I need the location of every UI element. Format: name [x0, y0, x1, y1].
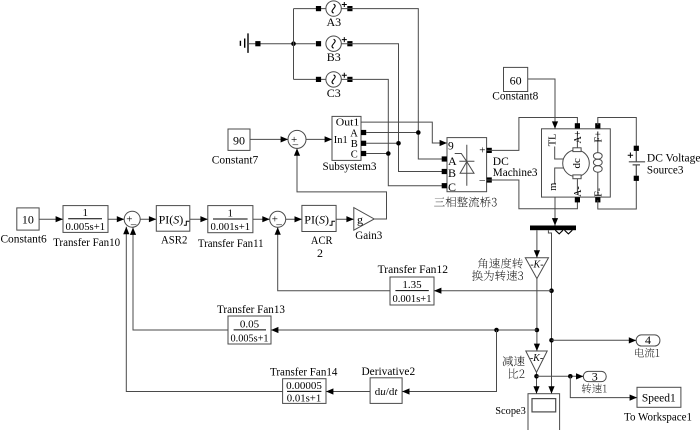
port bridge B: [442, 169, 447, 174]
svg-text:0.001s+1: 0.001s+1: [393, 293, 432, 305]
transfer fcn block Transfer Fan13: [228, 316, 271, 344]
svg-text:0.01s+1: 0.01s+1: [287, 393, 322, 405]
svg-text:F+: F+: [593, 131, 604, 143]
svg-text:To Workspace1: To Workspace1: [624, 410, 692, 424]
svg-text:In1: In1: [334, 135, 348, 146]
node speed1 tap: [568, 374, 573, 379]
svg-text:C3: C3: [327, 86, 341, 100]
node A tap: [416, 130, 421, 135]
svg-text:3: 3: [592, 369, 598, 383]
node current fb tap: [549, 288, 554, 293]
svg-text:0.005s+1: 0.005s+1: [231, 332, 269, 344]
svg-text:90: 90: [233, 134, 245, 148]
svg-text:Scope3: Scope3: [495, 405, 526, 417]
svg-text:–: –: [130, 218, 137, 230]
subsystem block Subsystem3: [332, 116, 361, 160]
svg-text:-K-: -K-: [530, 353, 543, 364]
port A3 left: [316, 6, 321, 11]
wire to C3: [294, 78, 327, 80]
constant block Constant8: [504, 67, 528, 91]
svg-text:A3: A3: [326, 15, 341, 29]
demux bar: [530, 226, 576, 231]
to-workspace block Speed1: [637, 387, 681, 407]
wire Fan13 to sum1: [133, 228, 228, 331]
svg-text:Source3: Source3: [647, 165, 684, 177]
wire F+ to battery +: [598, 118, 637, 148]
gain triangle reducer -K-: [526, 351, 547, 372]
outport block current 4: [636, 335, 660, 346]
thyristor symbol: [455, 145, 475, 186]
svg-text:Transfer Fan14: Transfer Fan14: [270, 364, 337, 378]
svg-text:Constant8: Constant8: [492, 89, 538, 103]
wire Derivative2 to Fan14: [326, 391, 370, 393]
node C tap: [386, 151, 391, 156]
svg-text:Machine3: Machine3: [493, 167, 538, 179]
wire Constant8 to TL: [528, 79, 555, 129]
port B3 left: [316, 41, 321, 46]
wire Subsystem3 C tap: [366, 153, 388, 155]
port bridge A: [442, 156, 447, 161]
svg-text:–: –: [479, 174, 486, 186]
wire Gain3 to sum3: [297, 148, 387, 219]
svg-text:2: 2: [317, 246, 323, 260]
constant block Constant7: [228, 129, 250, 150]
wire Subsystem3 B tap: [366, 142, 399, 144]
wire sum2 to ACR: [286, 218, 302, 220]
port bridge C: [442, 183, 447, 188]
wire F- to battery -: [598, 179, 637, 209]
sum junction S2: [270, 211, 286, 230]
port Subsystem3 B: [361, 141, 366, 146]
wire C3 to bridge C: [341, 79, 447, 185]
wire Fan12 to sum2: [278, 227, 390, 290]
svg-text:A+: A+: [573, 130, 584, 143]
svg-text:TL: TL: [548, 133, 559, 146]
sum junction S3: [288, 130, 306, 150]
wire sum1 to ASR2: [140, 218, 156, 220]
svg-text:Derivative2: Derivative2: [361, 364, 415, 378]
wire to speed port: [537, 375, 584, 377]
AC voltage source C3: [326, 72, 347, 87]
wire B3 to bridge B: [341, 44, 447, 172]
port on ground wire: [255, 41, 260, 46]
wire speed to Fan13: [271, 329, 537, 331]
svg-text:DC Voltage: DC Voltage: [647, 152, 700, 164]
svg-text:1: 1: [83, 207, 89, 219]
port A3 right: [347, 6, 352, 11]
wire to Speed1: [570, 376, 637, 397]
wire ACR to Gain3: [336, 218, 354, 220]
svg-text:4: 4: [645, 333, 651, 347]
svg-text:dc: dc: [571, 158, 583, 169]
port C3 left: [316, 77, 321, 82]
svg-text:Constant7: Constant7: [212, 153, 259, 167]
transfer fcn block Transfer Fan14: [283, 379, 326, 404]
gain triangle speed-convert -K-: [525, 258, 548, 279]
port bridge +: [487, 148, 492, 153]
wire sum to In1: [306, 138, 332, 140]
wire to Derivative2: [402, 330, 496, 392]
label reducer line1: [503, 356, 525, 367]
wire demux to speed gain: [536, 230, 538, 258]
svg-text:-K-: -K-: [530, 260, 543, 271]
svg-text:du/dt: du/dt: [375, 386, 399, 398]
svg-text:Constant6: Constant6: [0, 231, 46, 245]
label angular-speed-convert line2: [472, 270, 523, 281]
node reducer out: [534, 374, 539, 379]
label speed1: [582, 384, 607, 394]
node B tap: [396, 141, 401, 146]
svg-text:Transfer Fan10: Transfer Fan10: [53, 235, 120, 249]
label angular-speed-convert line1: [478, 258, 523, 269]
bridge block three-phase rectifier: [447, 138, 487, 192]
node speed tap: [535, 328, 540, 333]
transfer fcn block Transfer Fan11: [208, 206, 253, 233]
svg-text:Gain3: Gain3: [355, 228, 382, 242]
svg-text:Speed1: Speed1: [642, 393, 676, 405]
port battery +: [634, 146, 639, 151]
wire ground to B3: [248, 43, 316, 45]
svg-text:0.05: 0.05: [240, 318, 260, 330]
port machine A-: [575, 197, 580, 202]
svg-text:–: –: [292, 139, 299, 151]
svg-text:9: 9: [448, 141, 454, 153]
wire bridge + to A+: [487, 118, 578, 151]
svg-text:Transfer Fan13: Transfer Fan13: [217, 302, 285, 316]
svg-text:1.35: 1.35: [402, 279, 422, 291]
PI block ASR2: [156, 206, 190, 232]
label current1: [635, 348, 659, 358]
port battery -: [634, 176, 639, 181]
svg-text:1: 1: [228, 207, 234, 219]
outport block speed 3: [583, 371, 606, 381]
wire to current port: [552, 339, 637, 341]
port Subsystem3 C: [361, 151, 366, 156]
svg-text:–: –: [275, 219, 282, 231]
svg-text:B3: B3: [327, 50, 341, 64]
port bridge -: [487, 177, 492, 182]
wire Fan10 to sum1: [108, 218, 124, 220]
svg-text:C: C: [448, 180, 456, 194]
wire Fan11 to sum2: [253, 218, 270, 220]
AC voltage source B3: [326, 36, 347, 51]
port B3 right: [347, 41, 352, 46]
svg-text:10: 10: [22, 212, 34, 226]
svg-text:Out1: Out1: [336, 117, 360, 128]
AC voltage source A3: [326, 1, 347, 16]
wire Fan14 to sum1: [126, 227, 282, 392]
scope block Scope3: [528, 394, 560, 430]
port machine A+: [575, 123, 580, 128]
svg-text:0.001s+1: 0.001s+1: [211, 221, 251, 233]
sum junction S1: [124, 211, 140, 230]
wire current to Fan12: [434, 290, 552, 292]
transfer fcn block Transfer Fan10: [63, 206, 108, 233]
label reducer line2: [509, 369, 525, 379]
demux unconnected stubs: [555, 230, 572, 234]
wire phase bus vertical: [293, 9, 295, 80]
port machine F+: [595, 123, 600, 128]
wire to A3: [294, 8, 327, 10]
svg-text:F-: F-: [593, 188, 604, 197]
svg-text:B: B: [448, 166, 456, 180]
node current port tap: [549, 338, 554, 343]
svg-text:Subsystem3: Subsystem3: [323, 159, 377, 173]
constant block Constant6: [17, 208, 39, 230]
wire speed gain down: [536, 279, 538, 351]
machine internals: [555, 131, 602, 195]
port machine F-: [595, 197, 600, 202]
gain block Gain3: [354, 208, 374, 231]
port Subsystem3 A: [361, 130, 366, 135]
svg-text:m: m: [548, 183, 559, 191]
svg-text:PI(S): PI(S): [304, 212, 329, 226]
svg-text:A: A: [350, 129, 358, 140]
ground: [240, 33, 248, 53]
svg-text:60: 60: [510, 74, 522, 88]
battery DC Voltage Source3: [628, 151, 645, 176]
machine block DC Machine3: [542, 129, 611, 197]
label three-phase rectifier 3: [434, 197, 497, 208]
PI block ACR2: [302, 205, 336, 231]
svg-text:Transfer Fan12: Transfer Fan12: [378, 262, 448, 276]
wire ASR2 to Fan11: [190, 218, 208, 220]
svg-text:+: +: [479, 145, 485, 157]
node phase tie: [291, 41, 296, 46]
node derivative tap: [494, 328, 499, 333]
svg-text:g: g: [357, 212, 363, 226]
svg-text:PI(S): PI(S): [159, 212, 184, 226]
svg-text:ASR2: ASR2: [161, 233, 187, 247]
wire bridge - to A-: [487, 180, 578, 209]
wire Subsystem3 A tap: [366, 132, 418, 134]
wire Constant7 to sum: [250, 138, 288, 140]
derivative block Derivative2: [370, 378, 402, 404]
wire reducer to scope: [536, 372, 538, 393]
transfer fcn block Transfer Fan12: [390, 277, 434, 305]
wire machine m to demux: [554, 197, 556, 225]
wire Constant6 to Fan10: [39, 218, 63, 220]
svg-text:A-: A-: [573, 186, 584, 197]
svg-text:0.00005: 0.00005: [286, 380, 322, 392]
wire demux current down: [548, 230, 551, 394]
wire Out1 to bridge gate: [361, 122, 447, 143]
svg-text:Transfer Fan11: Transfer Fan11: [198, 236, 264, 250]
wire A3 to bridge A: [341, 9, 447, 159]
svg-text:0.005s+1: 0.005s+1: [66, 221, 106, 233]
port C3 right: [347, 77, 352, 82]
